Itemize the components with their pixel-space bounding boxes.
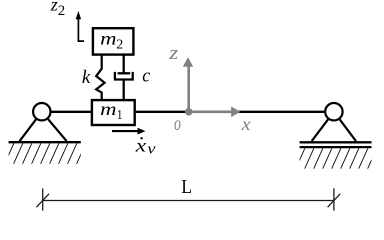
svg-text:x: x bbox=[240, 114, 250, 134]
svg-text:v: v bbox=[147, 141, 156, 157]
svg-text:k: k bbox=[82, 67, 91, 88]
svg-text:z: z bbox=[50, 0, 58, 15]
svg-text:2: 2 bbox=[116, 38, 123, 53]
svg-text:m: m bbox=[100, 29, 116, 49]
svg-text:2: 2 bbox=[58, 3, 65, 19]
svg-text:z: z bbox=[168, 43, 179, 64]
svg-text:L: L bbox=[181, 176, 192, 198]
svg-text:c: c bbox=[142, 66, 151, 87]
svg-text:1: 1 bbox=[117, 108, 123, 123]
svg-text:m: m bbox=[100, 99, 116, 119]
svg-text:o: o bbox=[174, 113, 181, 135]
svg-text:x: x bbox=[135, 136, 147, 156]
